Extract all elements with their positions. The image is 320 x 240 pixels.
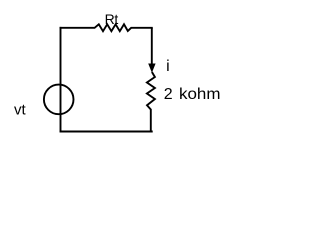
svg-text:kohm: kohm xyxy=(179,86,221,103)
svg-text:i: i xyxy=(166,58,170,75)
svg-text:Rt: Rt xyxy=(105,11,119,27)
svg-text:2: 2 xyxy=(164,86,173,103)
svg-text:vt: vt xyxy=(14,102,27,119)
